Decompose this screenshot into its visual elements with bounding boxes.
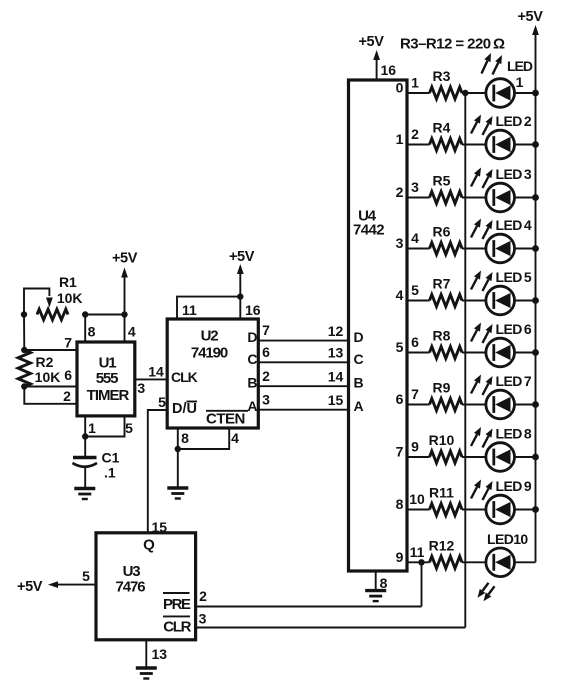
wire R4 to LED2 (462, 144, 486, 146)
svg-text:1: 1 (516, 74, 524, 90)
LED 6 (LED6) (486, 338, 515, 367)
svg-text:8: 8 (181, 430, 189, 446)
resistor R12 (430, 556, 463, 568)
wire U1 pin 4 (124, 315, 126, 343)
svg-text:8: 8 (88, 324, 96, 340)
LED 9 (LED9) (486, 495, 515, 524)
wire LED1 to +5V rail (515, 92, 536, 94)
wire R1 right to +5V (85, 314, 124, 316)
light arrows LED10 (478, 583, 495, 602)
pin 2 label U2 B (262, 368, 270, 384)
svg-text:4: 4 (231, 430, 239, 446)
wire U4 output 6 to R9 (407, 404, 430, 406)
pin 9 label U4 output 7 (411, 439, 419, 455)
svg-text:D: D (354, 329, 364, 345)
wire LED10 to +5V rail (515, 561, 536, 563)
wire R3 to LED1 (462, 92, 486, 94)
svg-text:R8: R8 (433, 328, 451, 344)
label LED 10 (487, 531, 528, 547)
label LED 2 (496, 113, 532, 129)
svg-text:R7: R7 (433, 276, 451, 292)
capacitor C1 (73, 458, 98, 489)
label R5 (433, 173, 451, 189)
svg-text:+5V: +5V (517, 9, 543, 25)
svg-text:7: 7 (64, 335, 72, 351)
svg-text:9: 9 (411, 439, 419, 455)
wire B U2 to U4 (258, 385, 348, 387)
svg-text:R1: R1 (59, 274, 77, 290)
label LED 9 (496, 478, 532, 494)
junction dot R1 left (21, 311, 27, 317)
svg-text:LED 4: LED 4 (496, 217, 532, 233)
wire C U2 to U4 (258, 361, 348, 363)
label D U2 right edge (247, 329, 257, 345)
svg-text:14: 14 (148, 364, 164, 380)
svg-text:2: 2 (262, 368, 270, 384)
svg-text:B: B (354, 375, 364, 391)
U4 output 7 label (396, 444, 404, 460)
svg-text:6: 6 (64, 367, 72, 383)
pin 15 label U4 A (328, 392, 344, 408)
pin 13 label U4 C (328, 345, 344, 361)
wire U4 output 3 to R6 (407, 248, 430, 250)
svg-text:9: 9 (396, 549, 404, 565)
ground U4 (365, 591, 386, 602)
svg-text:10: 10 (409, 491, 425, 507)
svg-text:LED 9: LED 9 (496, 478, 532, 494)
wire U2 pin 8 to ground (177, 428, 179, 488)
svg-text:6: 6 (396, 391, 404, 407)
svg-text:.1: .1 (104, 465, 116, 481)
wire U4 pin 8 to ground (375, 571, 377, 591)
wire U4 output 4 to R7 (407, 300, 430, 302)
label A U4 left edge (354, 398, 364, 414)
svg-text:D: D (247, 329, 257, 345)
svg-text:LED 2: LED 2 (496, 113, 532, 129)
wire U1 pin 7 (24, 349, 77, 351)
svg-text:15: 15 (328, 392, 344, 408)
svg-text:U2: U2 (201, 328, 219, 345)
label R10 (429, 432, 455, 448)
svg-text:7: 7 (396, 444, 404, 460)
svg-text:7: 7 (262, 322, 270, 338)
pin 5 label U4 output 4 (411, 282, 419, 298)
svg-text:R5: R5 (433, 173, 451, 189)
label PRE U3 (163, 593, 191, 613)
svg-text:+5V: +5V (358, 34, 384, 50)
svg-text:1: 1 (396, 131, 404, 147)
label LED 6 (496, 321, 532, 337)
svg-text:1: 1 (88, 420, 96, 436)
svg-text:2: 2 (396, 184, 404, 200)
label R2 value 10K (35, 369, 61, 385)
wire U3 PRE to output 9 junction (196, 606, 422, 608)
U4 output 6 label (396, 391, 404, 407)
svg-text:TIMER: TIMER (87, 387, 130, 404)
svg-text:14: 14 (328, 369, 344, 385)
label R1 value 10K (57, 290, 83, 306)
pin 6 label U4 output 5 (411, 334, 419, 350)
svg-text:LED10: LED10 (487, 531, 528, 547)
pin 11 label U4 output 9 (410, 544, 425, 560)
+5V supply label U1 (112, 251, 138, 267)
wire R11 to LED9 (462, 509, 486, 511)
pin 4 label U4 output 3 (411, 230, 419, 246)
wire LED7 to +5V rail (515, 404, 536, 406)
pin 13 label U3 (152, 646, 168, 662)
svg-text:R11: R11 (429, 485, 454, 501)
label CTEN U2 (206, 411, 248, 428)
svg-text:5: 5 (125, 420, 133, 436)
pin 3 label U3 (199, 611, 207, 627)
resistor R7 (430, 295, 463, 307)
svg-text:CLK: CLK (171, 369, 198, 385)
wire U2 pin 4 to ground (178, 428, 229, 449)
wire U1 pin 5 (85, 416, 124, 437)
label Q U3 (143, 537, 155, 554)
label R4 (433, 120, 451, 136)
svg-text:R3: R3 (433, 68, 451, 84)
svg-text:CLR: CLR (163, 619, 191, 636)
svg-text:C: C (354, 351, 364, 367)
svg-text:6: 6 (262, 344, 270, 360)
svg-text:LED 7: LED 7 (496, 373, 532, 389)
wire R10 to LED8 (462, 456, 486, 458)
wire U3 CLR to output 0 junction (196, 627, 466, 629)
junction dot rail row 8 (532, 454, 539, 461)
resistor R6 (430, 243, 463, 255)
wire U4 output 5 to R8 (407, 352, 430, 354)
wire R12 to LED10 (462, 561, 486, 563)
svg-text:10K: 10K (35, 369, 61, 385)
junction dot R2 bottom / pin 6 (21, 383, 27, 389)
junction dot rail row 7 (532, 401, 539, 408)
svg-text:2: 2 (63, 388, 71, 404)
svg-text:LED 8: LED 8 (496, 426, 532, 442)
U4 output 3 label (396, 235, 404, 251)
LED 2 (LED2) (486, 130, 515, 159)
svg-text:Q: Q (143, 537, 155, 554)
resistor R11 (430, 504, 463, 516)
+5V supply label U3 (17, 579, 43, 595)
wire A U2 to U4 (258, 409, 348, 411)
svg-text:5: 5 (158, 394, 166, 410)
label LED 3 (496, 166, 532, 182)
resistor R9 (430, 399, 463, 411)
pin 14 label U2 CLK (148, 364, 164, 380)
svg-text:555: 555 (96, 370, 118, 387)
svg-text:LED 3: LED 3 (496, 166, 532, 182)
label B U2 right edge (247, 375, 257, 391)
svg-text:8: 8 (396, 496, 404, 512)
pin 1 label U4 output 0 (411, 75, 419, 91)
pin 14 label U4 B (328, 369, 344, 385)
svg-text:R2: R2 (36, 354, 54, 370)
wire U1 pin 1 to C1 (84, 416, 86, 456)
wire U1 pin 6 (24, 386, 77, 388)
label D/U U2 (172, 401, 197, 417)
pin 4 label U1 (128, 324, 136, 340)
pin 16 label U4 (381, 62, 397, 78)
wire U4 output 9 to R12 (407, 561, 430, 563)
svg-text:+5V: +5V (112, 251, 138, 267)
resistor R5 (430, 192, 463, 204)
junction dot R2 top / pin 7 (21, 347, 27, 353)
pin 8 label U2 (181, 430, 189, 446)
label R11 (429, 485, 454, 501)
+5V supply label top right (517, 9, 543, 25)
label LED 4 (496, 217, 532, 233)
wire LED8 to +5V rail (515, 456, 536, 458)
LED 1 (LED1) (486, 79, 515, 108)
pin 3 label U4 output 2 (411, 179, 419, 195)
svg-text:3: 3 (262, 391, 270, 407)
pin 10 label U4 output 8 (409, 491, 425, 507)
light arrows LED3 (471, 168, 493, 189)
junction dot output 0 / CLR (462, 90, 468, 96)
svg-text:13: 13 (152, 646, 168, 662)
+5V arrow U4 pin 16 (373, 50, 380, 80)
resistor R2 (18, 350, 30, 387)
wire LED anode rail (535, 38, 537, 562)
pin 7 label U4 output 6 (411, 386, 419, 402)
+5V arrow U1 (121, 268, 128, 315)
wire LED2 to +5V rail (515, 144, 536, 146)
svg-text:0: 0 (396, 80, 404, 96)
wire U4 output 8 to R11 (407, 509, 430, 511)
pin 5 label U1 (125, 420, 133, 436)
wire CLR vertical (464, 93, 466, 628)
LED 4 (LED4) (486, 234, 515, 263)
svg-text:7442: 7442 (353, 222, 384, 239)
svg-text:5: 5 (411, 282, 419, 298)
svg-text:7: 7 (411, 386, 419, 402)
wire R1 left to R2 (23, 315, 25, 351)
junction dot R1 right (82, 311, 88, 317)
svg-text:11: 11 (182, 302, 197, 318)
pin 4 label U2 (231, 430, 239, 446)
pin 6 label U2 C (262, 344, 270, 360)
LED 5 (LED5) (486, 286, 515, 315)
wire R6 to LED4 (462, 248, 486, 250)
ground U2 (167, 488, 188, 499)
resistor R4 (430, 139, 463, 151)
svg-text:CTEN: CTEN (206, 411, 245, 428)
LED 3 (LED3) (486, 183, 515, 212)
IC U2 74190 (167, 319, 258, 428)
junction dot U2 ground (175, 446, 181, 452)
svg-text:B: B (247, 375, 257, 391)
label R12 (429, 537, 455, 553)
label C1 value .1 (104, 465, 116, 481)
U4 output 0 label (396, 80, 404, 96)
svg-text:D/U: D/U (172, 401, 197, 417)
U4 output 5 label (396, 339, 404, 355)
resistor R1 (pot) (37, 309, 68, 320)
label CLK U2 (171, 369, 198, 385)
svg-text:R3–R12 = 220 Ω: R3–R12 = 220 Ω (400, 36, 505, 53)
wire U4 output 1 to R4 (407, 144, 430, 146)
pin 12 label U4 D (328, 323, 344, 339)
svg-text:A: A (247, 398, 257, 414)
label R6 (433, 224, 451, 240)
label CLR U3 (163, 616, 192, 635)
light arrows LED6 (471, 323, 493, 344)
label C U2 right edge (247, 351, 257, 367)
light arrows LED2 (471, 115, 493, 136)
light arrows LED1 (482, 53, 503, 75)
pin 15 label U3 (152, 519, 168, 535)
pin 16 label U2 (245, 302, 261, 318)
ground U3 (136, 668, 157, 679)
U4 output 1 label (396, 131, 404, 147)
light arrows LED4 (471, 219, 493, 240)
svg-text:4: 4 (396, 287, 404, 303)
ground C1 (74, 489, 95, 500)
pin 7 label U2 D (262, 322, 270, 338)
svg-text:3: 3 (411, 179, 419, 195)
svg-text:3: 3 (396, 235, 404, 251)
svg-text:A: A (354, 398, 364, 414)
pot wiper loop R1 (24, 289, 53, 315)
wire LED9 to +5V rail (515, 509, 536, 511)
light arrows LED7 (471, 375, 493, 396)
svg-text:2: 2 (199, 588, 207, 604)
pin 7 label U1 (64, 335, 72, 351)
svg-text:R12: R12 (429, 537, 455, 553)
svg-text:R9: R9 (433, 380, 451, 396)
svg-text:4: 4 (128, 324, 136, 340)
IC U3 7476 (96, 533, 196, 640)
pin 3 label U2 A (262, 391, 270, 407)
wire U4 output 2 to R5 (407, 197, 430, 199)
wire U1 pin 3 to U2 CLK (135, 378, 167, 380)
svg-text:C: C (247, 351, 257, 367)
svg-text:5: 5 (396, 339, 404, 355)
wire R7 to LED5 (462, 300, 486, 302)
wire LED3 to +5V rail (515, 197, 536, 199)
label LED 5 (496, 269, 532, 285)
wire U1 pin 8 (84, 315, 86, 343)
junction dot rail row 4 (532, 245, 539, 252)
wire LED5 to +5V rail (515, 300, 536, 302)
wire D U2 to U4 (258, 340, 348, 342)
+5V arrow U2 (237, 264, 244, 297)
junction dot rail row 2 (532, 141, 539, 148)
junction dot rail row 3 (532, 194, 539, 201)
wire LED6 to +5V rail (515, 352, 536, 354)
label A U2 right edge (247, 398, 257, 414)
U4 output 2 label (396, 184, 404, 200)
+5V arrow U3 pin 5 (48, 581, 96, 588)
label R7 (433, 276, 451, 292)
wire PRE vertical (421, 562, 423, 606)
label R8 (433, 328, 451, 344)
wire +5V to U2 pin 16 (239, 297, 241, 319)
label LED 8 (496, 426, 532, 442)
svg-text:LED: LED (507, 58, 533, 74)
label C U4 left edge (354, 351, 364, 367)
junction dot U2 supply (237, 293, 243, 299)
pin 3 label U1 (137, 380, 145, 396)
pin 2 label U4 output 1 (411, 126, 419, 142)
wire U4 output 0 to R3 (407, 92, 430, 94)
svg-text:16: 16 (245, 302, 261, 318)
LED 7 (LED7) (486, 390, 515, 419)
junction dot rail row 9 (532, 506, 539, 513)
svg-text:11: 11 (410, 544, 425, 560)
pin 8 label U1 (88, 324, 96, 340)
svg-text:7476: 7476 (116, 579, 146, 596)
wire +5V to U2 pin 11 (177, 297, 240, 319)
svg-text:+5V: +5V (229, 249, 255, 265)
label C1 (102, 450, 120, 466)
svg-text:74190: 74190 (191, 345, 228, 362)
svg-text:U3: U3 (123, 563, 141, 580)
wire U3 pin 13 to ground (145, 640, 147, 668)
pin 5 label U2 (158, 394, 166, 410)
label R3-R12 = 220 ohm (400, 36, 505, 53)
pin 11 label U2 (182, 302, 197, 318)
junction dot output 9 / PRE (418, 559, 424, 565)
pin 2 label U1 (63, 388, 71, 404)
junction dot R1 right rail (121, 311, 127, 317)
LED 8 (LED8) (486, 443, 515, 472)
svg-text:4: 4 (411, 230, 419, 246)
light arrows LED8 (471, 427, 493, 448)
junction dot rail row 1 (532, 90, 539, 97)
svg-text:U1: U1 (99, 354, 117, 371)
label R3 (433, 68, 451, 84)
+5V supply label U2 (229, 249, 255, 265)
svg-text:R6: R6 (433, 224, 451, 240)
IC U4 7442 (349, 80, 408, 571)
+5V supply label U4 (358, 34, 384, 50)
resistor R10 (430, 451, 463, 463)
LED 10 (LED10) (486, 548, 515, 577)
pin 2 label U3 (199, 588, 207, 604)
svg-text:13: 13 (328, 345, 344, 361)
U4 output 9 label (396, 549, 404, 565)
light arrows LED5 (471, 271, 493, 292)
svg-text:LED 5: LED 5 (496, 269, 532, 285)
pin 6 label U1 (64, 367, 72, 383)
svg-text:R4: R4 (433, 120, 451, 136)
wire R8 to LED6 (462, 352, 486, 354)
wire U2 D/U to U3 Q (148, 410, 167, 533)
wire U4 output 7 to R10 (407, 456, 430, 458)
junction dot rail row 5 (532, 297, 539, 304)
wire R5 to LED3 (462, 197, 486, 199)
+5V rail arrow (532, 25, 539, 40)
junction dot pin1/pin5/C1 (82, 433, 88, 439)
resistor R3 (430, 87, 463, 99)
pin 8 label U4 (380, 575, 388, 591)
U4 output 4 label (396, 287, 404, 303)
U4 output 8 label (396, 496, 404, 512)
svg-text:5: 5 (82, 568, 90, 584)
label LED 7 (496, 373, 532, 389)
svg-text:PRE: PRE (163, 596, 191, 613)
svg-text:12: 12 (328, 323, 344, 339)
svg-text:1: 1 (411, 75, 419, 91)
label D U4 left edge (354, 329, 364, 345)
svg-text:3: 3 (137, 380, 145, 396)
svg-text:R10: R10 (429, 432, 455, 448)
label LED 1 (507, 58, 533, 90)
wire R2 bottom to pin 2 (24, 387, 77, 404)
pin 5 label U3 (82, 568, 90, 584)
